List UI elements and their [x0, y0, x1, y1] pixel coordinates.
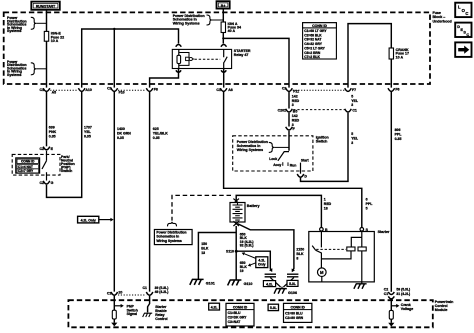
svg-text:C1: C1: [384, 292, 389, 296]
svg-text:92 (5.3L): 92 (5.3L): [240, 244, 254, 248]
svg-text:YEL: YEL: [351, 99, 359, 103]
svg-text:BLK: BLK: [296, 252, 304, 256]
svg-text:Control: Control: [155, 317, 167, 321]
svg-text:Switch: Switch: [316, 140, 328, 144]
svg-text:5.3L: 5.3L: [270, 306, 277, 310]
svg-text:PPL: PPL: [395, 132, 403, 136]
svg-text:Systems: Systems: [7, 73, 21, 77]
svg-text:PPL: PPL: [366, 202, 374, 206]
svg-text:Underhood: Underhood: [433, 19, 452, 23]
svg-text:C201: C201: [278, 109, 286, 113]
svg-text:A5: A5: [52, 91, 57, 95]
svg-text:0.35: 0.35: [153, 136, 160, 140]
svg-text:A10: A10: [85, 88, 91, 92]
svg-text:C1: C1: [107, 291, 112, 295]
svg-text:Wiring Systems: Wiring Systems: [156, 239, 182, 243]
svg-text:C2: C2: [107, 86, 112, 90]
svg-text:31 (4.2L): 31 (4.2L): [396, 292, 410, 296]
svg-text:Systems: Systems: [7, 29, 21, 33]
svg-text:1430: 1430: [117, 127, 125, 131]
svg-text:Only: Only: [258, 263, 266, 267]
svg-text:C2=DK GRY: C2=DK GRY: [228, 315, 248, 319]
svg-text:A8: A8: [228, 88, 233, 92]
svg-text:BLK: BLK: [201, 246, 209, 250]
svg-text:10 A: 10 A: [396, 55, 404, 59]
svg-text:F8: F8: [154, 87, 158, 91]
svg-text:0.35: 0.35: [395, 137, 402, 141]
svg-text:Battery: Battery: [247, 204, 261, 208]
svg-text:PNK: PNK: [49, 130, 57, 134]
svg-text:C2=80 GRN: C2=80 GRN: [285, 316, 304, 320]
svg-text:142: 142: [292, 94, 298, 98]
svg-text:0.35: 0.35: [49, 134, 56, 138]
svg-text:CONN ID: CONN ID: [233, 305, 248, 309]
svg-text:F7: F7: [352, 88, 356, 92]
svg-text:C1: C1: [216, 88, 221, 92]
svg-text:C3=NAT: C3=NAT: [228, 320, 241, 324]
svg-text:C2=7 GRY: C2=7 GRY: [18, 169, 34, 173]
svg-text:G101: G101: [206, 282, 215, 286]
svg-text:RED: RED: [324, 202, 332, 206]
svg-text:CONN ID: CONN ID: [291, 305, 306, 309]
svg-text:Starter: Starter: [378, 230, 390, 234]
svg-text:S110: S110: [226, 250, 234, 254]
svg-text:Signal: Signal: [127, 312, 138, 316]
svg-text:Accy: Accy: [273, 163, 281, 167]
svg-text:639: 639: [49, 126, 55, 130]
svg-text:CONN ID: CONN ID: [21, 160, 35, 164]
svg-text:C2: C2: [282, 86, 287, 90]
svg-text:4.2L: 4.2L: [266, 282, 273, 286]
svg-text:YEL/BLK: YEL/BLK: [153, 131, 168, 135]
svg-text:142: 142: [292, 114, 298, 118]
svg-text:YEL: YEL: [351, 137, 359, 141]
svg-text:Module: Module: [435, 308, 448, 312]
svg-text:C2: C2: [40, 147, 45, 151]
svg-text:13: 13: [201, 251, 205, 255]
svg-text:3: 3: [351, 103, 353, 107]
svg-text:1: 1: [324, 198, 326, 202]
svg-text:L: L: [458, 5, 461, 10]
svg-text:CONN ID: CONN ID: [312, 24, 327, 28]
svg-text:Wiring Systems: Wiring Systems: [173, 22, 200, 26]
svg-text:Lock: Lock: [269, 157, 277, 161]
svg-text:F10: F10: [119, 90, 125, 94]
svg-text:0.35: 0.35: [84, 134, 91, 138]
svg-text:DK GRN: DK GRN: [117, 131, 131, 135]
svg-text:2150: 2150: [296, 248, 304, 252]
svg-text:150: 150: [201, 242, 207, 246]
svg-text:806: 806: [395, 128, 401, 132]
svg-text:Voltage: Voltage: [401, 307, 413, 311]
svg-text:10 A: 10 A: [51, 39, 59, 43]
svg-text:YEL: YEL: [84, 130, 92, 134]
svg-text:1737: 1737: [84, 126, 92, 130]
svg-text:C1: C1: [143, 286, 148, 290]
svg-text:C1=BLU: C1=BLU: [228, 311, 242, 315]
svg-text:5: 5: [351, 94, 353, 98]
svg-text:3: 3: [292, 103, 294, 107]
svg-text:Switch: Switch: [61, 169, 72, 173]
svg-text:C: C: [465, 11, 468, 16]
svg-text:4.2L Only: 4.2L Only: [81, 218, 96, 222]
svg-text:Run: Run: [290, 163, 297, 167]
svg-text:625: 625: [153, 127, 159, 131]
svg-text:G106: G106: [288, 291, 297, 295]
svg-text:C7=2 BLK: C7=2 BLK: [304, 55, 320, 59]
svg-text:18: 18: [324, 206, 328, 210]
svg-text:Relay 47: Relay 47: [234, 53, 249, 57]
svg-text:C1: C1: [40, 88, 45, 92]
svg-text:4.2L: 4.2L: [211, 305, 218, 309]
svg-text:5: 5: [366, 206, 368, 210]
svg-text:C2: C2: [384, 288, 389, 292]
svg-text:Start: Start: [301, 158, 310, 162]
svg-text:G: G: [51, 181, 54, 185]
svg-text:40 A: 40 A: [228, 29, 236, 33]
svg-text:0.35: 0.35: [117, 136, 124, 140]
svg-text:20: 20: [118, 291, 122, 295]
svg-text:F6: F6: [395, 87, 399, 91]
svg-text:RED: RED: [292, 99, 300, 103]
svg-text:49 (4.2L): 49 (4.2L): [155, 290, 169, 294]
svg-text:5.3L: 5.3L: [289, 282, 296, 286]
svg-text:8: 8: [296, 256, 298, 260]
svg-text:5: 5: [351, 132, 353, 136]
svg-text:19: 19: [240, 269, 244, 273]
svg-text:3: 3: [351, 141, 353, 145]
svg-text:6: 6: [366, 198, 368, 202]
svg-text:B5: B5: [293, 110, 298, 114]
svg-text:B+: B+: [221, 4, 226, 8]
svg-text:C2: C2: [40, 181, 45, 185]
svg-text:C1=80 BLU: C1=80 BLU: [285, 311, 303, 315]
svg-text:59 (5.3L): 59 (5.3L): [396, 288, 410, 292]
svg-text:C1: C1: [352, 109, 357, 113]
svg-text:C: C: [466, 33, 469, 37]
svg-text:RED: RED: [292, 119, 300, 123]
svg-text:G110: G110: [244, 282, 253, 286]
svg-text:Wiring Systems: Wiring Systems: [237, 148, 263, 152]
svg-text:M: M: [320, 270, 324, 275]
svg-text:RUN/START: RUN/START: [36, 4, 56, 8]
